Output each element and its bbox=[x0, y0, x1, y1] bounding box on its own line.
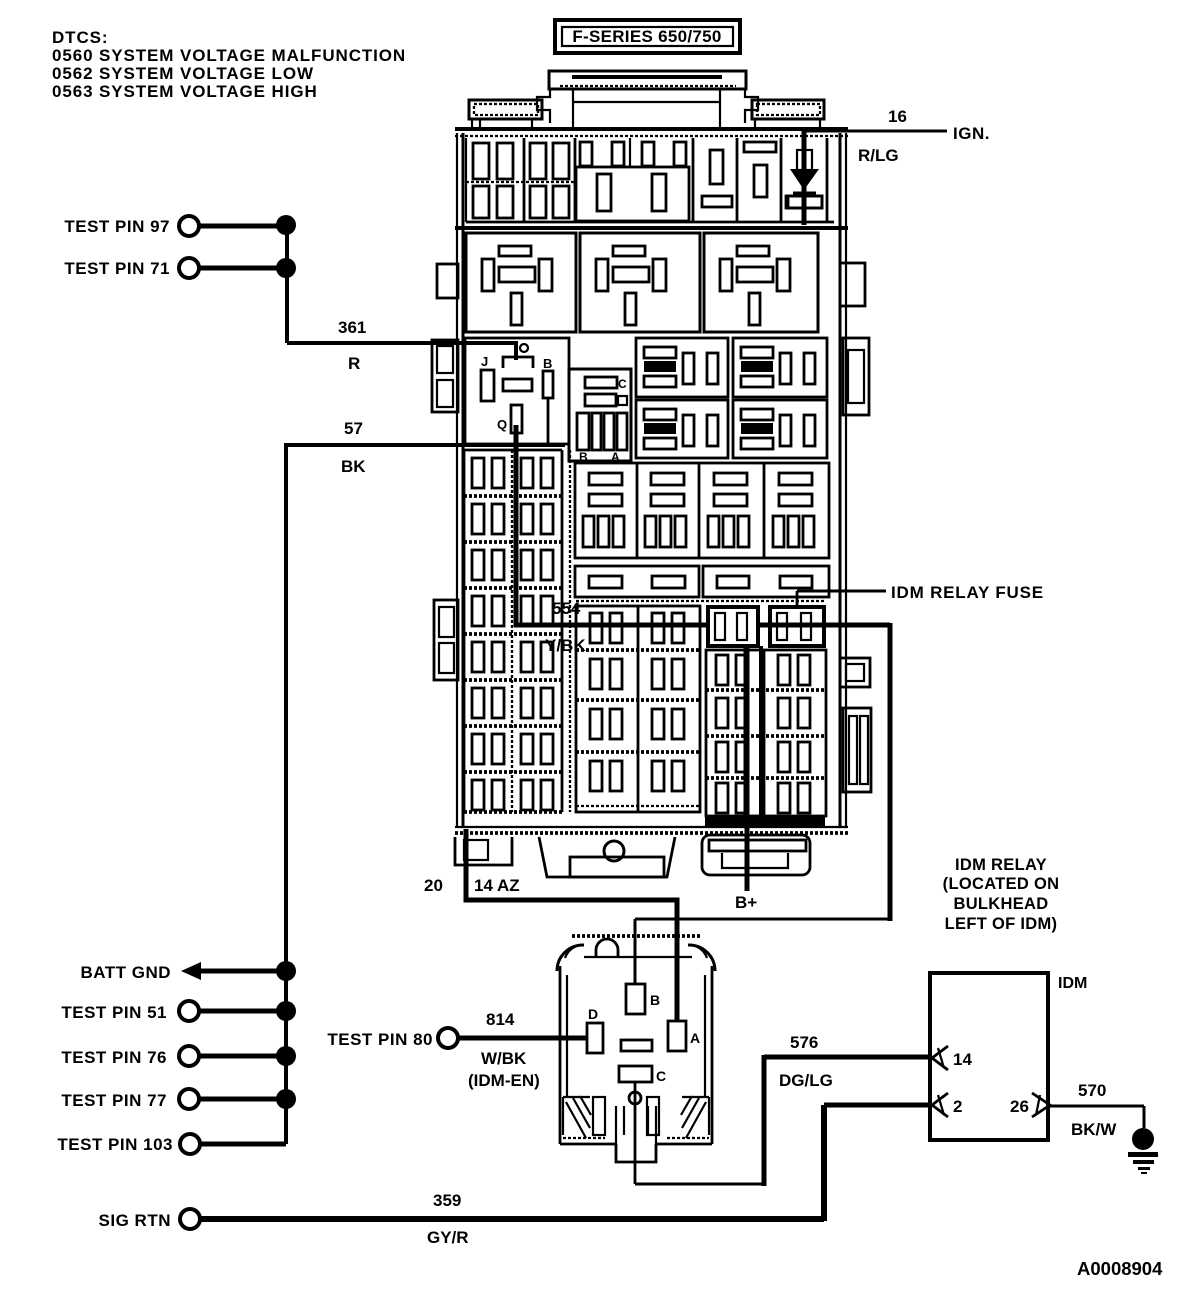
IDM box bbox=[930, 973, 1087, 1140]
connector block C/D/B/A bbox=[569, 369, 631, 464]
ground symbol bbox=[1128, 1128, 1158, 1174]
fuse row A compartments bbox=[466, 138, 834, 222]
fuse box top cover bbox=[469, 71, 824, 129]
svg-text:361: 361 bbox=[338, 318, 366, 337]
svg-text:IDM: IDM bbox=[1058, 975, 1087, 992]
row A fuse slots bbox=[473, 143, 489, 179]
svg-text:0560 SYSTEM VOLTAGE MALFUNCTIO: 0560 SYSTEM VOLTAGE MALFUNCTION bbox=[52, 46, 406, 65]
svg-text:SIG RTN: SIG RTN bbox=[99, 1211, 171, 1230]
svg-text:20: 20 bbox=[424, 876, 443, 895]
svg-text:TEST PIN 103: TEST PIN 103 bbox=[57, 1135, 173, 1154]
svg-text:570: 570 bbox=[1078, 1081, 1106, 1100]
svg-text:TEST PIN 77: TEST PIN 77 bbox=[61, 1091, 167, 1110]
relay center slot bbox=[621, 1040, 652, 1051]
svg-text:F-SERIES 650/750: F-SERIES 650/750 bbox=[572, 27, 721, 46]
wire 570 BK/W and ground bbox=[1048, 1081, 1144, 1139]
relay pin C bbox=[619, 1066, 652, 1082]
svg-text:TEST PIN 97: TEST PIN 97 bbox=[64, 217, 170, 236]
IDM relay fuse (thick cells) bbox=[708, 607, 758, 646]
IDM relay location note bbox=[943, 856, 1060, 933]
diagram id bbox=[1077, 1258, 1163, 1279]
svg-text:IDM RELAY: IDM RELAY bbox=[955, 856, 1047, 874]
test pin 80 and wire 814 bbox=[327, 1010, 587, 1090]
left wall tab lower bbox=[434, 600, 458, 680]
svg-text:576: 576 bbox=[790, 1033, 818, 1052]
svg-text:B+: B+ bbox=[735, 893, 757, 912]
svg-text:LEFT OF IDM): LEFT OF IDM) bbox=[945, 915, 1058, 933]
relay bottom mount hatch bbox=[593, 1097, 605, 1135]
node TEST PIN 76 with junction bbox=[61, 1046, 296, 1067]
svg-text:DTCS:: DTCS: bbox=[52, 28, 108, 47]
svg-text:IGN.: IGN. bbox=[953, 124, 990, 143]
wire 20 14AZ to relay pin A bbox=[424, 829, 677, 1022]
svg-text:57: 57 bbox=[344, 419, 363, 438]
row A comp6 slot bbox=[788, 196, 822, 208]
wire IGN with fusible link arrow bbox=[786, 131, 947, 225]
fuse box outer shell bbox=[455, 129, 848, 833]
row A comp4 slots bbox=[710, 150, 723, 184]
svg-text:IDM RELAY FUSE: IDM RELAY FUSE bbox=[891, 583, 1044, 602]
svg-text:359: 359 bbox=[433, 1191, 461, 1210]
relay B3 slots bbox=[737, 246, 769, 256]
node BATT GND with arrow and junction bbox=[80, 961, 296, 982]
svg-text:C: C bbox=[656, 1068, 666, 1084]
svg-text:2: 2 bbox=[953, 1097, 962, 1116]
svg-text:TEST PIN 51: TEST PIN 51 bbox=[61, 1003, 167, 1022]
svg-text:14 AZ: 14 AZ bbox=[474, 876, 520, 895]
lower right fuse grid with IDM relay fuse bbox=[705, 607, 826, 827]
svg-text:B: B bbox=[543, 356, 552, 371]
svg-text:BK/W: BK/W bbox=[1071, 1120, 1117, 1139]
relay row B compartments bbox=[455, 228, 848, 332]
bottom mounting bracket center bbox=[539, 837, 675, 877]
svg-text:B: B bbox=[650, 992, 660, 1008]
test pin 97 circle and wire bbox=[64, 215, 296, 236]
svg-text:TEST PIN 76: TEST PIN 76 bbox=[61, 1048, 167, 1067]
row A comp5 slots bbox=[744, 142, 776, 152]
label 16 R/LG IGN. bbox=[858, 107, 990, 165]
wire pin C to 576 bbox=[635, 1033, 930, 1186]
svg-text:DG/LG: DG/LG bbox=[779, 1071, 833, 1090]
pin 14 bbox=[932, 1046, 948, 1070]
left block fuse slots bbox=[472, 458, 504, 488]
svg-text:J: J bbox=[481, 354, 488, 369]
wire 361 R trunk upper bbox=[287, 225, 516, 373]
fuse pair modules row C bbox=[636, 338, 827, 458]
title box F-SERIES 650/750 bbox=[555, 20, 740, 53]
svg-text:(LOCATED ON: (LOCATED ON bbox=[943, 875, 1060, 893]
svg-text:0562 SYSTEM VOLTAGE LOW: 0562 SYSTEM VOLTAGE LOW bbox=[52, 64, 314, 83]
svg-text:(IDM-EN): (IDM-EN) bbox=[468, 1071, 540, 1090]
svg-text:16: 16 bbox=[888, 107, 907, 126]
svg-text:R/LG: R/LG bbox=[858, 146, 899, 165]
fuse bar row E bbox=[575, 566, 829, 597]
right wall tab upper bbox=[843, 338, 869, 415]
svg-text:C: C bbox=[618, 377, 627, 391]
svg-text:A: A bbox=[690, 1030, 700, 1046]
wire Q drop and 554 bbox=[514, 425, 710, 655]
right wall tab lower bbox=[840, 658, 871, 792]
svg-text:26: 26 bbox=[1010, 1097, 1029, 1116]
left wall tab upper bbox=[432, 340, 458, 412]
relay pin A bbox=[668, 1021, 686, 1051]
svg-text:0563 SYSTEM VOLTAGE HIGH: 0563 SYSTEM VOLTAGE HIGH bbox=[52, 82, 318, 101]
svg-text:TEST PIN 80: TEST PIN 80 bbox=[327, 1030, 433, 1049]
svg-text:Q: Q bbox=[497, 417, 507, 432]
node TEST PIN 77 with junction bbox=[61, 1089, 296, 1110]
svg-text:BATT GND: BATT GND bbox=[80, 963, 171, 982]
svg-text:A0008904: A0008904 bbox=[1077, 1258, 1163, 1279]
wire 57 BK bbox=[286, 419, 565, 1144]
row A wide lower box bbox=[576, 167, 689, 221]
B+ feed verticals inside grid bbox=[744, 646, 749, 816]
relay center tab bbox=[616, 1106, 656, 1144]
svg-text:GY/R: GY/R bbox=[427, 1228, 469, 1247]
svg-text:554: 554 bbox=[552, 599, 581, 618]
svg-text:D: D bbox=[588, 1006, 598, 1022]
bottom left bracket bbox=[455, 837, 512, 865]
right wall small tab top bbox=[840, 263, 865, 306]
relay B1 slots bbox=[499, 246, 531, 256]
svg-text:BULKHEAD: BULKHEAD bbox=[954, 895, 1049, 913]
svg-text:814: 814 bbox=[486, 1010, 515, 1029]
svg-text:R: R bbox=[348, 354, 360, 373]
pin 2 bbox=[932, 1093, 948, 1117]
fuse modules row D bbox=[575, 463, 829, 558]
node TEST PIN 51 with junction bbox=[61, 1001, 296, 1022]
node TEST PIN 103 bbox=[57, 1134, 286, 1154]
wire B+ drop bbox=[735, 646, 757, 912]
left wall small tab top bbox=[437, 264, 458, 298]
svg-text:Y/BK: Y/BK bbox=[545, 636, 586, 655]
IDM relay (bottom) bbox=[557, 936, 715, 1162]
wire SIG RTN 359 to pin 2 bbox=[99, 1105, 930, 1247]
wire IDM relay fuse to relay pin B bbox=[635, 623, 890, 985]
svg-text:14: 14 bbox=[953, 1050, 972, 1069]
svg-text:TEST PIN 71: TEST PIN 71 bbox=[64, 259, 170, 278]
test pin 71 circle and wire bbox=[64, 258, 296, 278]
relay pin B bbox=[626, 984, 645, 1014]
internal relay compartment (J/B/Q) bbox=[465, 338, 569, 444]
IDM relay fuse label and leader bbox=[797, 583, 1044, 607]
DTC note text bbox=[52, 28, 406, 101]
svg-text:BK: BK bbox=[341, 457, 366, 476]
svg-text:W/BK: W/BK bbox=[481, 1049, 527, 1068]
bottom right bracket bbox=[702, 835, 810, 875]
relay B2 slots bbox=[613, 246, 645, 256]
lower center fuse grid bbox=[570, 450, 826, 812]
